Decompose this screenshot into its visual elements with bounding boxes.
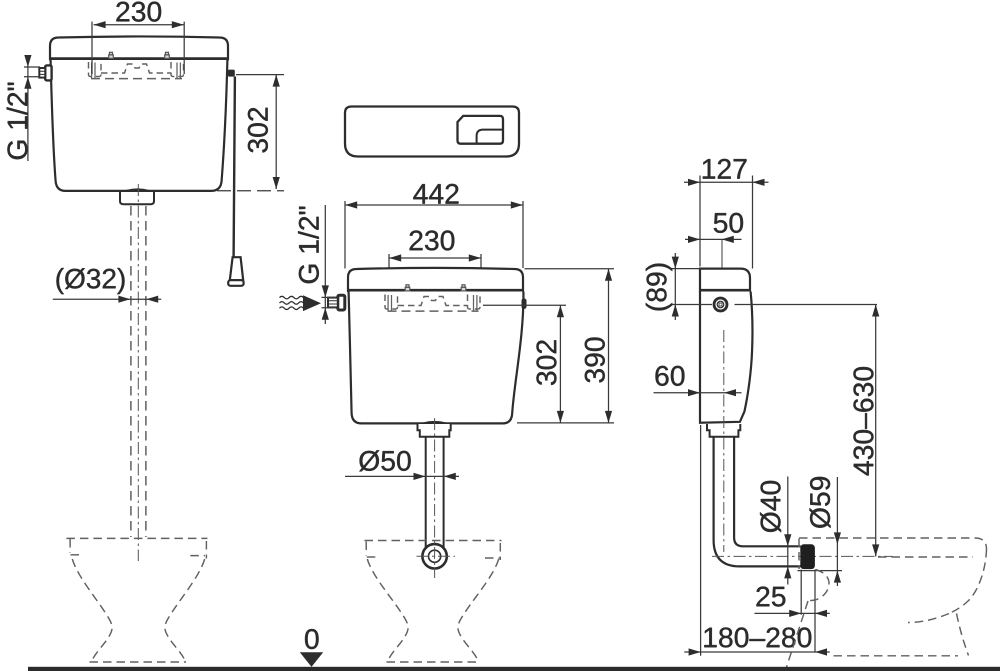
toilet (side view, dashed)	[786, 538, 986, 668]
chain handle	[230, 257, 243, 280]
tank bottom hump (middle)	[423, 422, 446, 424]
dim 50	[714, 213, 743, 233]
dim 60	[655, 366, 684, 386]
dim (Ø32)	[56, 268, 124, 294]
zero level marker	[305, 629, 319, 649]
dim 302 (middle)	[483, 304, 566, 306]
pull chain	[234, 77, 235, 258]
flush pipe (middle, solid)	[426, 437, 444, 551]
button centerline	[721, 239, 723, 320]
pipe centerline	[137, 184, 139, 561]
dim 302 (left)	[236, 74, 284, 76]
lid seam line	[49, 57, 229, 60]
pipe end circles	[422, 544, 446, 568]
cistern lid (left view)	[7, 2, 284, 662]
rubber connector (black)	[800, 544, 815, 569]
internal mechanism (middle, hidden)	[385, 295, 480, 312]
dim 430-630	[875, 305, 877, 557]
dim G 1/2" (left)	[27, 56, 29, 162]
dim G 1/2" (middle)	[324, 205, 326, 324]
lid plan view (top)	[345, 107, 519, 157]
flush pipe with elbow (side)	[714, 437, 801, 567]
dim (89)	[672, 269, 713, 305]
dim 25	[756, 587, 785, 607]
dim 442	[413, 184, 458, 204]
dim 230 (left)	[91, 22, 93, 74]
cistern body	[51, 60, 228, 191]
push button (side, circle)	[714, 298, 727, 311]
inlet fitting (left side)	[45, 65, 51, 80]
pipe centerline (middle)	[434, 418, 436, 578]
lid seam (side)	[699, 289, 751, 292]
outlet flange (middle)	[418, 424, 451, 437]
cistern body (middle)	[349, 292, 524, 424]
tank bottom hump	[126, 189, 149, 191]
dim Ø59	[836, 477, 838, 586]
chain knob	[228, 70, 235, 77]
flush button outer	[458, 116, 504, 144]
dim 390	[525, 268, 615, 270]
dim 230 (middle)	[410, 230, 455, 250]
flush button inner (small flush)	[477, 130, 503, 144]
cistern lid (middle)	[348, 268, 523, 291]
toilet bowl (dashed outline)	[66, 538, 207, 662]
overflow knob on right edge	[522, 299, 527, 309]
mounting studs	[109, 52, 170, 58]
inlet fitting (middle)	[338, 295, 345, 310]
pipe centerline (side)	[723, 330, 725, 552]
flush pipe (hidden/dashed)	[130, 206, 132, 537]
outlet flange (side)	[707, 424, 740, 437]
internal mechanism (hidden/dashed)	[89, 62, 184, 79]
button-center extension line (long, to 430-630)	[735, 304, 878, 306]
cistern body (side)	[700, 292, 752, 423]
dim 180-280	[704, 627, 811, 647]
dim 127	[703, 159, 747, 179]
cistern lid (side)	[700, 269, 750, 291]
toilet bowl (middle, dashed)	[365, 541, 502, 663]
bottom outlet flange	[120, 191, 154, 204]
supply arrow	[303, 295, 321, 311]
lid seam (middle)	[347, 289, 524, 292]
dim Ø50	[359, 450, 410, 471]
mechanism screw lines	[92, 63, 181, 79]
dim Ø40	[787, 477, 789, 585]
water supply squiggle	[280, 296, 304, 309]
